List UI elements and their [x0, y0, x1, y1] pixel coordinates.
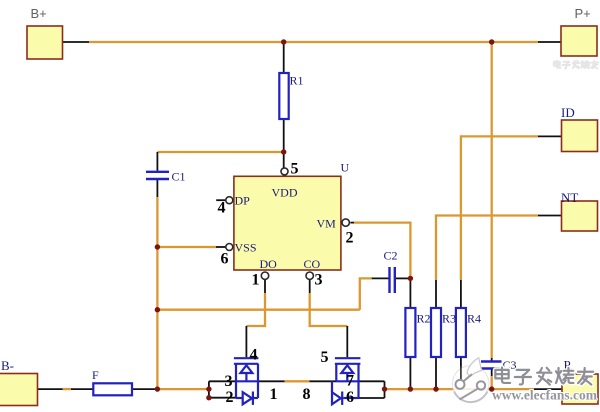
node junction fuse	[155, 386, 160, 391]
svg-text:ID: ID	[561, 105, 575, 120]
wire M1 source junction vertical	[208, 381, 210, 397]
node junction VDD	[281, 149, 286, 154]
svg-text:DP: DP	[235, 194, 251, 208]
svg-text:VDD: VDD	[272, 186, 298, 200]
resistor R3	[431, 308, 441, 357]
node P- terminal	[562, 374, 598, 404]
svg-text:C1: C1	[172, 170, 186, 184]
svg-text:R1: R1	[290, 74, 304, 88]
node junction R3 bottom	[433, 386, 438, 391]
svg-text:P+: P+	[575, 6, 591, 21]
svg-text:3: 3	[225, 373, 233, 390]
svg-text:6: 6	[346, 389, 354, 406]
wire B- to fuse (orange bit)	[63, 388, 71, 390]
capacitor C3	[481, 362, 502, 369]
wire CO to gate2 (orange)	[310, 293, 348, 326]
node junction C3 bottom	[489, 386, 494, 391]
node junction VSS	[155, 244, 160, 249]
wire B+ stub (black)	[63, 41, 90, 43]
wire rail fuse to M1 (orange)	[157, 388, 207, 390]
svg-text:6: 6	[221, 251, 229, 268]
diode D1 (body diode Q1)	[236, 392, 258, 405]
wire P+ vertical drop to C3	[491, 42, 493, 358]
wire drain link M1-M2 black left	[258, 380, 285, 382]
watermark faint band top right	[554, 61, 598, 69]
wire drain link orange middle	[285, 380, 310, 382]
pin circle VSS	[226, 244, 233, 251]
svg-text:B+: B+	[31, 6, 47, 21]
node B+ terminal	[27, 26, 63, 59]
wire M2 pin6	[359, 397, 385, 399]
wire C1 top lead	[156, 152, 158, 171]
svg-text:NT: NT	[561, 190, 578, 205]
diode D2 (body diode Q2)	[332, 381, 359, 405]
svg-text:4: 4	[218, 200, 226, 217]
node junction M2 source	[382, 386, 387, 391]
node P+ terminal	[561, 26, 597, 56]
pin circle DP	[226, 197, 233, 204]
op-amp U1 (protection IC body)	[234, 176, 341, 270]
wire fuse right lead	[132, 388, 156, 390]
pin circle VM	[342, 219, 349, 226]
wire C3 to B- rail	[491, 376, 493, 389]
wire VSS horizontal	[157, 246, 216, 248]
svg-text:5: 5	[291, 161, 299, 178]
wire M2 pin7	[359, 380, 385, 382]
wire M1 pin3	[209, 380, 236, 382]
wire gate1 vertical (black)	[245, 326, 247, 357]
pin circle 5	[281, 168, 288, 175]
svg-text:2: 2	[346, 230, 354, 247]
node NT terminal	[562, 201, 598, 231]
svg-text:5: 5	[321, 349, 329, 366]
node junction M1 source a	[206, 386, 211, 391]
wire DP pin stub (unconnected)	[216, 199, 226, 201]
wire C2 left lead	[372, 277, 389, 279]
wire VM pin stub	[350, 222, 354, 224]
wire R3 bottom lead	[435, 357, 437, 389]
watermark text chinese (vector strokes with white halo)	[495, 367, 593, 384]
resistor R2	[405, 308, 415, 357]
svg-text:R2: R2	[417, 312, 431, 326]
wire R4 top lead	[460, 280, 462, 308]
wire pin5 stub	[283, 152, 285, 168]
wire C3 bottom lead	[491, 370, 493, 377]
fuse F	[93, 383, 132, 395]
wire R4 bottom lead	[460, 357, 462, 385]
wire DO to gate1 (orange)	[246, 293, 265, 326]
wire M2 source junction vertical	[384, 381, 386, 398]
wire DO pin stub	[264, 280, 266, 294]
svg-text:8: 8	[303, 386, 311, 403]
wire R1 top lead	[283, 42, 285, 73]
transistor Q2 (MOSFET right)	[335, 358, 361, 398]
wire R2 top lead	[409, 278, 411, 308]
svg-text:C2: C2	[384, 249, 398, 263]
wire top rail B+ to P+ (orange)	[89, 41, 538, 43]
node ID terminal	[562, 120, 598, 152]
node junction P+ drop	[489, 39, 494, 44]
svg-text:U: U	[341, 161, 350, 175]
svg-text:VSS: VSS	[235, 241, 257, 255]
svg-text:R3: R3	[442, 312, 456, 326]
wire gate2 vertical (black)	[346, 326, 348, 357]
transistor Q1 (MOSFET left)	[234, 358, 259, 398]
node B- terminal	[0, 374, 38, 406]
capacitor C2	[390, 267, 395, 293]
node junction C2 branch	[155, 307, 160, 312]
svg-text:VM: VM	[317, 217, 337, 231]
svg-text:7: 7	[346, 373, 354, 390]
wire R3 top lead	[435, 280, 437, 308]
watermark logo circle	[452, 358, 489, 402]
wire P- stub	[534, 388, 562, 390]
wire CO pin stub	[309, 280, 311, 294]
wire C1 bottom lead	[156, 180, 158, 197]
wire B- stub	[38, 388, 63, 390]
svg-text:B-: B-	[1, 358, 14, 373]
resistor R4	[456, 308, 466, 357]
wire R2 bottom lead	[409, 357, 411, 389]
wire ID stub	[538, 135, 562, 137]
node junction M1 source b	[206, 395, 211, 400]
wire NT to R3 (orange)	[436, 216, 538, 281]
wire drain link black right	[310, 380, 337, 382]
svg-text:2: 2	[226, 389, 234, 406]
svg-text:R4: R4	[467, 312, 481, 326]
svg-text:1: 1	[252, 272, 260, 289]
node junction R2 bottom	[408, 386, 413, 391]
wire R1 bottom lead	[283, 119, 285, 152]
svg-text:DO: DO	[260, 257, 278, 271]
svg-text:3: 3	[315, 272, 323, 289]
wire VSS vertical (C1 to B- rail)	[156, 197, 158, 389]
wire VSS pin stub	[216, 246, 226, 248]
wire M1 pin2	[209, 397, 236, 399]
capacitor C1	[146, 172, 169, 179]
wire rail M2 to P- (orange)	[385, 388, 535, 390]
svg-text:www.elecfans.com: www.elecfans.com	[492, 388, 598, 403]
wire C2 right lead	[396, 277, 411, 279]
pin circle DO	[261, 272, 268, 279]
wire node VDD horizontal to C1	[157, 151, 282, 153]
svg-text:CO: CO	[304, 257, 321, 271]
svg-text:F: F	[92, 368, 99, 382]
svg-text:4: 4	[250, 347, 258, 364]
node junction R1 top	[281, 39, 286, 44]
wire C2 branch horizontal from VSS line	[157, 309, 359, 311]
node junction VM C2 R2	[408, 276, 413, 281]
wire fuse left lead	[71, 388, 93, 390]
wire P+ stub (black)	[538, 41, 561, 43]
wire VM to R2 (orange)	[354, 223, 410, 277]
pin circle CO	[306, 272, 313, 279]
resistor R1	[279, 73, 288, 119]
wire C3 top lead	[491, 358, 493, 361]
wire NT stub	[538, 215, 562, 217]
wire C2 branch vertical	[360, 278, 372, 309]
svg-text:1: 1	[270, 386, 278, 403]
wire ID to R4 (orange)	[461, 136, 538, 280]
